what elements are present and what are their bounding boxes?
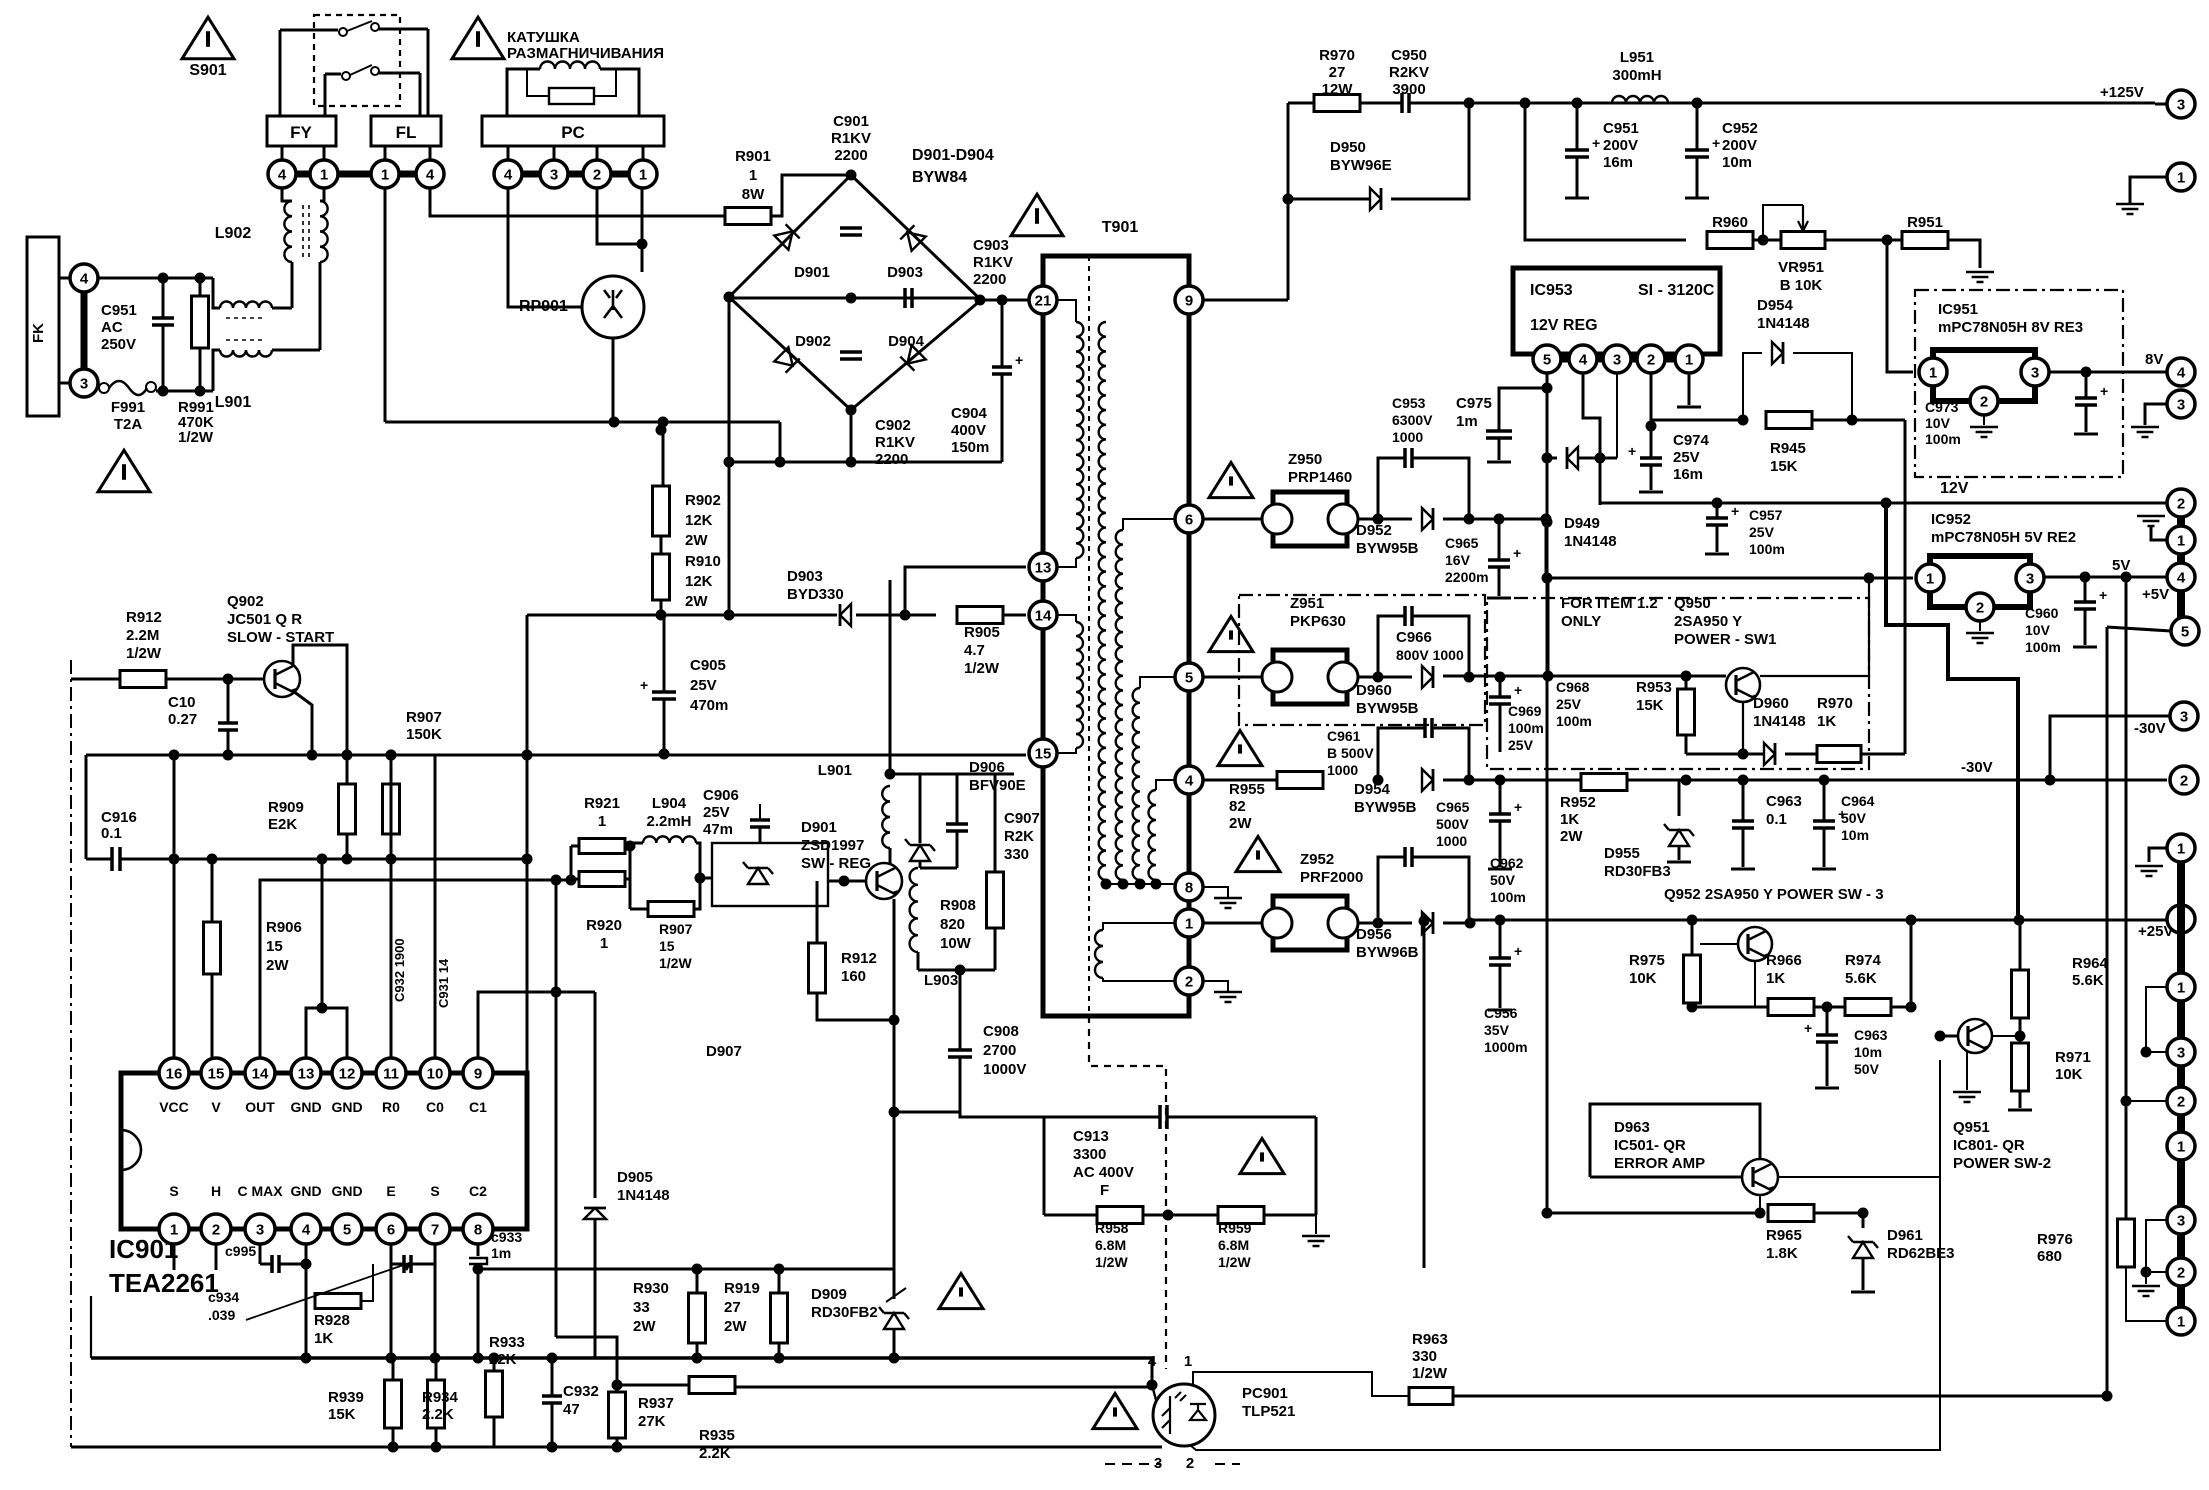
warning triangle bottom mid xyxy=(939,1273,983,1308)
pins under FL xyxy=(384,146,387,161)
svg-text:C963: C963 xyxy=(1766,793,1802,810)
wire RP901 bottom xyxy=(612,338,615,422)
svg-text:C906: C906 xyxy=(703,787,739,804)
svg-text:2.2K: 2.2K xyxy=(699,1445,731,1462)
warning triangle Z952 xyxy=(1236,836,1280,871)
transformer core dashed xyxy=(1088,256,1090,1016)
resistor R902 xyxy=(662,422,665,487)
svg-text:3: 3 xyxy=(80,375,88,392)
primary winding lower xyxy=(1056,615,1076,622)
svg-text:0.27: 0.27 xyxy=(168,711,197,728)
svg-text:4: 4 xyxy=(2177,364,2186,381)
svg-text:-30V: -30V xyxy=(1961,759,1993,776)
svg-text:1: 1 xyxy=(749,167,757,184)
svg-text:C1: C1 xyxy=(469,1099,487,1115)
svg-text:C964: C964 xyxy=(1841,793,1875,809)
wire R974 node up xyxy=(1910,920,1913,1007)
svg-text:Q902: Q902 xyxy=(227,593,264,610)
wire bridge out to T901 pin21 xyxy=(981,299,1029,302)
svg-text:3: 3 xyxy=(2177,1212,2185,1229)
svg-text:+: + xyxy=(2099,587,2107,603)
svg-text:2.2K: 2.2K xyxy=(422,1406,454,1423)
T901 pin 1 xyxy=(1175,909,1203,937)
svg-text:R937: R937 xyxy=(638,1395,674,1412)
resistor R910 xyxy=(660,536,663,555)
capacitor C961 loop xyxy=(1373,775,1384,786)
wire Q903 collector coil L901b xyxy=(882,786,890,848)
svg-text:+: + xyxy=(1015,352,1023,368)
connector pin 1 gnd 5V xyxy=(2167,526,2195,554)
svg-text:1N4148: 1N4148 xyxy=(1564,533,1617,550)
svg-text:ONLY: ONLY xyxy=(1561,613,1601,630)
IC951 pin2 ground xyxy=(1983,415,1985,425)
svg-text:Z951: Z951 xyxy=(1290,595,1324,612)
svg-text:R933: R933 xyxy=(489,1334,525,1351)
svg-text:1000V: 1000V xyxy=(983,1061,1026,1078)
svg-text:1/2W: 1/2W xyxy=(1218,1254,1251,1270)
svg-text:+125V: +125V xyxy=(2100,84,2144,101)
thick bus 12V group xyxy=(2177,503,2185,631)
svg-text:10: 10 xyxy=(427,1065,444,1082)
svg-text:C902: C902 xyxy=(875,417,911,434)
wire IC953 pin5 down xyxy=(1546,373,1549,676)
svg-text:27: 27 xyxy=(724,1299,741,1316)
transistor Q903 SW-REG xyxy=(866,863,902,899)
wire bridge bottom return xyxy=(850,410,853,462)
capacitor C965 xyxy=(1498,519,1501,560)
svg-text:1N4148: 1N4148 xyxy=(617,1187,670,1204)
svg-text:2: 2 xyxy=(2177,1093,2185,1110)
warning triangle above T901 xyxy=(1011,194,1063,236)
connector pin 2 (-30V) xyxy=(2170,766,2198,794)
diode D954b xyxy=(1422,769,1433,791)
svg-text:+: + xyxy=(1513,545,1521,561)
svg-text:200V: 200V xyxy=(1603,137,1638,154)
svg-text:Q951: Q951 xyxy=(1953,1119,1990,1136)
posistor Z951 xyxy=(1203,676,1262,679)
svg-text:1: 1 xyxy=(2177,532,2185,549)
svg-text:D949: D949 xyxy=(1564,515,1600,532)
wire left vertex column xyxy=(728,297,731,615)
svg-text:R905: R905 xyxy=(964,624,1000,641)
svg-text:B 500V: B 500V xyxy=(1327,745,1374,761)
svg-text:R974: R974 xyxy=(1845,952,1882,969)
svg-text:47: 47 xyxy=(563,1401,580,1418)
svg-text:33: 33 xyxy=(633,1299,650,1316)
warning triangle lower-left xyxy=(98,450,150,492)
svg-text:D906: D906 xyxy=(969,759,1005,776)
svg-text:2: 2 xyxy=(2177,1264,2185,1281)
trimmer arrow c934 xyxy=(246,1262,412,1320)
svg-text:1N4148: 1N4148 xyxy=(1757,315,1810,332)
line 1269 xyxy=(478,1268,894,1271)
capacitor C951b xyxy=(1576,103,1579,150)
svg-text:R953: R953 xyxy=(1636,679,1672,696)
svg-text:R912: R912 xyxy=(126,609,162,626)
svg-text:1000: 1000 xyxy=(1392,429,1423,445)
capacitor C963b xyxy=(1742,780,1745,821)
svg-text:+: + xyxy=(1804,1020,1812,1036)
svg-text:C MAX: C MAX xyxy=(237,1183,283,1199)
warning triangle c913 xyxy=(1240,1138,1284,1173)
svg-text:R952: R952 xyxy=(1560,794,1596,811)
svg-text:3: 3 xyxy=(2026,570,2034,587)
svg-text:FY: FY xyxy=(290,123,312,142)
svg-text:FOR ITEM 1.2: FOR ITEM 1.2 xyxy=(1561,595,1658,612)
svg-text:+: + xyxy=(1628,443,1636,459)
svg-text:D963: D963 xyxy=(1614,1119,1650,1136)
transistor Q902 xyxy=(264,661,300,697)
diode D903 xyxy=(900,225,925,250)
svg-text:GND: GND xyxy=(290,1183,321,1199)
wire error amp out xyxy=(1778,1060,1940,1177)
svg-text:D901-D904: D901-D904 xyxy=(912,147,994,164)
svg-text:R934: R934 xyxy=(422,1389,459,1406)
svg-text:C905: C905 xyxy=(690,657,726,674)
connector FK xyxy=(27,237,59,416)
resistor R991 xyxy=(199,278,202,296)
svg-text:1K: 1K xyxy=(1560,811,1579,828)
box sides xyxy=(1043,1117,1046,1215)
zener D961 xyxy=(1862,1213,1865,1228)
resistor R975 xyxy=(1691,920,1694,955)
svg-text:1K: 1K xyxy=(1766,970,1785,987)
svg-text:C953: C953 xyxy=(1392,395,1426,411)
resistor R945 xyxy=(1766,412,1812,429)
svg-text:2W: 2W xyxy=(1229,815,1252,832)
wire regulation line xyxy=(527,614,837,617)
wire VR951 to IC951 xyxy=(1887,240,1913,372)
svg-text:c933: c933 xyxy=(491,1229,522,1245)
svg-text:+: + xyxy=(1514,799,1522,815)
rail mid lower C916 xyxy=(85,755,88,859)
Q950 dash-dot box xyxy=(1487,598,1869,769)
svg-text:0.1: 0.1 xyxy=(101,825,122,842)
svg-text:15K: 15K xyxy=(1770,458,1798,475)
T901 pin 9 xyxy=(1175,286,1203,314)
resistor R952 xyxy=(1581,774,1627,791)
svg-text:D903: D903 xyxy=(887,264,923,281)
wire Q951 emitter gnd xyxy=(1966,1050,1968,1090)
svg-text:25V: 25V xyxy=(1508,737,1534,753)
T901 pin 6 xyxy=(1175,505,1203,533)
svg-text:4: 4 xyxy=(1579,351,1588,368)
resistor R974 xyxy=(1814,1006,1845,1009)
svg-text:C951: C951 xyxy=(1603,120,1639,137)
svg-text:100m: 100m xyxy=(2025,639,2061,655)
wire Q903 emitter down xyxy=(893,899,896,1269)
svg-text:BYW84: BYW84 xyxy=(912,169,967,186)
IC901 box xyxy=(121,1073,527,1229)
svg-text:2200: 2200 xyxy=(834,147,867,164)
svg-text:R901: R901 xyxy=(735,148,771,165)
svg-text:GND: GND xyxy=(331,1099,362,1115)
wire pin2 line R945 xyxy=(1651,419,1743,422)
wire FL pin1 down xyxy=(384,188,387,422)
IC952 pin 3 xyxy=(2016,564,2044,592)
svg-text:5: 5 xyxy=(2181,623,2189,640)
wire pins 1-2 stubs xyxy=(173,1243,176,1270)
svg-text:1: 1 xyxy=(2177,1313,2185,1330)
svg-text:3900: 3900 xyxy=(1392,81,1425,98)
svg-text:330: 330 xyxy=(1412,1348,1437,1365)
svg-text:C932: C932 xyxy=(563,1383,599,1400)
svg-text:C932 1900: C932 1900 xyxy=(392,938,407,1002)
svg-text:R912: R912 xyxy=(841,950,877,967)
wire branch6 to column xyxy=(1545,519,1548,578)
svg-text:+: + xyxy=(1514,943,1522,959)
svg-text:1: 1 xyxy=(1185,915,1193,932)
resistor R939 xyxy=(392,1358,395,1380)
svg-text:SW - REG: SW - REG xyxy=(801,855,871,872)
svg-text:2: 2 xyxy=(1647,351,1655,368)
wire Z952 out xyxy=(1358,922,1412,925)
svg-text:50V: 50V xyxy=(1841,810,1867,826)
capacitor C973 xyxy=(2085,372,2088,398)
svg-text:IC501- QR: IC501- QR xyxy=(1614,1137,1686,1154)
svg-text:2: 2 xyxy=(1185,973,1193,990)
svg-text:3: 3 xyxy=(2177,96,2185,113)
svg-text:2W: 2W xyxy=(685,593,708,610)
connector group bottom pins xyxy=(2167,973,2195,1001)
capacitor c933 pins6-7 xyxy=(390,1243,393,1264)
svg-text:L901: L901 xyxy=(215,394,252,411)
svg-text:C931 14: C931 14 xyxy=(436,958,451,1008)
svg-text:1: 1 xyxy=(2177,1138,2185,1155)
secondary winding 4 xyxy=(1149,790,1156,880)
svg-text:16V: 16V xyxy=(1445,552,1471,568)
svg-text:250V: 250V xyxy=(101,336,136,353)
svg-text:2: 2 xyxy=(1976,599,1984,616)
svg-text:25V: 25V xyxy=(1673,449,1700,466)
wire pin9 riser xyxy=(478,992,595,1058)
capacitor C960 xyxy=(2084,577,2087,602)
T901 pin 15 xyxy=(1029,739,1057,767)
wire emitter to R965 xyxy=(1759,1195,1761,1213)
svg-text:C968: C968 xyxy=(1556,679,1590,695)
resistor R936 xyxy=(689,1377,735,1394)
svg-text:D952: D952 xyxy=(1356,522,1392,539)
svg-text:2: 2 xyxy=(1980,393,1988,410)
wire Q951 base xyxy=(1940,1035,1958,1038)
svg-text:S901: S901 xyxy=(189,62,226,79)
svg-text:100m: 100m xyxy=(1925,431,1961,447)
resistor R976 xyxy=(2125,1101,2128,1219)
svg-text:C973: C973 xyxy=(1925,399,1959,415)
svg-text:R963: R963 xyxy=(1412,1331,1448,1348)
wire B+ sense xyxy=(1525,103,1686,240)
svg-text:22K: 22K xyxy=(489,1351,517,1368)
diode D954 xyxy=(1743,353,1762,420)
svg-text:100m: 100m xyxy=(1490,889,1526,905)
wire pin16 riser xyxy=(173,755,176,1058)
wire rail right end up xyxy=(1151,1358,1154,1385)
thick ground rail xyxy=(91,1356,1152,1360)
capacitor C951 xyxy=(162,278,165,318)
resistor R963 xyxy=(1409,1388,1453,1405)
svg-text:3: 3 xyxy=(2180,708,2188,725)
svg-text:C903: C903 xyxy=(973,237,1009,254)
svg-text:RD30FB2: RD30FB2 xyxy=(811,1304,878,1321)
wire mains top xyxy=(98,277,213,280)
svg-text:4: 4 xyxy=(278,166,287,183)
svg-text:C904: C904 xyxy=(951,405,988,422)
svg-text:15: 15 xyxy=(266,938,283,955)
svg-text:820: 820 xyxy=(940,916,965,933)
svg-text:VR951: VR951 xyxy=(1778,259,1824,276)
switch contact upper xyxy=(280,29,338,32)
tertiary winding pins1-2 xyxy=(1103,923,1176,930)
svg-text:1m: 1m xyxy=(1456,413,1478,430)
svg-text:1m: 1m xyxy=(491,1245,511,1261)
connector pin 1 gnd mid xyxy=(2149,848,2170,862)
svg-text:10m: 10m xyxy=(1722,154,1752,171)
resistor R912 xyxy=(120,671,166,688)
capacitor C932b xyxy=(551,1358,554,1396)
wire PC901 pin2 right xyxy=(1190,1177,1940,1450)
svg-text:400V: 400V xyxy=(951,422,986,439)
svg-text:9: 9 xyxy=(474,1065,482,1082)
svg-text:6: 6 xyxy=(1185,511,1193,528)
svg-text:47m: 47m xyxy=(703,821,733,838)
svg-text:mPC78N05H 5V RE2: mPC78N05H 5V RE2 xyxy=(1931,529,2076,546)
svg-text:R970: R970 xyxy=(1319,47,1355,64)
T901 pin 8 xyxy=(1175,873,1203,901)
wire IC953 pin1 ground xyxy=(1688,373,1691,405)
svg-text:D903: D903 xyxy=(787,568,823,585)
resistor R921 xyxy=(579,839,625,854)
svg-text:R939: R939 xyxy=(328,1389,364,1406)
IC901 bottom pins xyxy=(159,1214,189,1244)
wire 578 line xyxy=(1548,577,1913,580)
svg-text:FL: FL xyxy=(396,123,417,142)
Z951 dash-dot box xyxy=(1239,595,1485,725)
connector pin 2 (12V) xyxy=(2167,489,2195,517)
svg-text:D961: D961 xyxy=(1887,1227,1923,1244)
transformer T901 frame xyxy=(1043,256,1189,1016)
svg-text:100m: 100m xyxy=(1508,720,1544,736)
svg-text:14: 14 xyxy=(252,1065,269,1082)
svg-text:AC 400V: AC 400V xyxy=(1073,1164,1134,1181)
svg-text:BYW95B: BYW95B xyxy=(1354,799,1417,816)
svg-text:POWER - SW1: POWER - SW1 xyxy=(1674,631,1777,648)
capacitor c932 pin8 xyxy=(477,1243,480,1256)
svg-text:R906: R906 xyxy=(266,919,302,936)
svg-text:2SA950 Y: 2SA950 Y xyxy=(1674,613,1742,630)
svg-text:82: 82 xyxy=(1229,798,1246,815)
secondary winding 1 xyxy=(1099,322,1106,880)
svg-text:R2K: R2K xyxy=(1004,828,1034,845)
svg-text:BYW95B: BYW95B xyxy=(1356,700,1419,717)
svg-text:R1KV: R1KV xyxy=(831,130,871,147)
svg-text:SLOW - START: SLOW - START xyxy=(227,629,334,646)
wire Q952 collector xyxy=(1754,961,1756,1007)
svg-text:R935: R935 xyxy=(699,1427,735,1444)
svg-text:1: 1 xyxy=(1685,351,1693,368)
svg-text:50V: 50V xyxy=(1490,872,1516,888)
capacitor C966 loop xyxy=(1378,616,1405,677)
svg-text:ERROR AMP: ERROR AMP xyxy=(1614,1155,1705,1172)
svg-text:14: 14 xyxy=(1035,607,1052,624)
T901 pin 4 xyxy=(1175,766,1203,794)
svg-text:R930: R930 xyxy=(633,1280,669,1297)
svg-text:2W: 2W xyxy=(1560,828,1583,845)
resistor R901 xyxy=(725,208,771,225)
svg-text:IC952: IC952 xyxy=(1931,511,1971,528)
svg-text:R0: R0 xyxy=(382,1099,400,1115)
resistor R960 xyxy=(1707,232,1753,249)
svg-text:F: F xyxy=(1100,1182,1109,1199)
thick bus right edge xyxy=(2177,862,2185,1321)
svg-text:1: 1 xyxy=(639,166,647,183)
svg-text:C957: C957 xyxy=(1749,507,1783,523)
capacitor C10 xyxy=(227,679,230,723)
B+ rail 125V xyxy=(1469,102,2155,105)
svg-text:OUT: OUT xyxy=(245,1099,275,1115)
T901 pin 5 xyxy=(1175,663,1203,691)
svg-text:R902: R902 xyxy=(685,492,721,509)
svg-text:6.8M: 6.8M xyxy=(1095,1237,1126,1253)
posistor RP901 xyxy=(582,276,644,338)
snubber box D901 SW-REG xyxy=(712,843,828,906)
wire pin7 down xyxy=(434,1264,437,1358)
IC951 pin 1 xyxy=(1919,358,1947,386)
diode D960b 1N4148 xyxy=(1686,753,1764,756)
svg-text:D909: D909 xyxy=(811,1286,847,1303)
dashed feedback to PC901 xyxy=(1089,1016,1166,1369)
transistor Q963 error amp xyxy=(1742,1159,1778,1195)
svg-text:12: 12 xyxy=(339,1065,356,1082)
svg-text:c995: c995 xyxy=(225,1243,256,1259)
svg-text:D954: D954 xyxy=(1354,781,1391,798)
svg-text:16: 16 xyxy=(166,1065,183,1082)
svg-text:C974: C974 xyxy=(1673,432,1710,449)
svg-text:PRP1460: PRP1460 xyxy=(1288,469,1352,486)
wire Z950 out xyxy=(1358,518,1412,521)
svg-text:C965: C965 xyxy=(1445,535,1479,551)
svg-text:1: 1 xyxy=(1184,1353,1192,1370)
svg-text:R1KV: R1KV xyxy=(973,254,1013,271)
svg-text:RD62BE3: RD62BE3 xyxy=(1887,1245,1955,1262)
svg-text:150K: 150K xyxy=(406,726,442,743)
svg-text:25V: 25V xyxy=(690,677,717,694)
svg-text:1: 1 xyxy=(600,935,608,952)
svg-text:C0: C0 xyxy=(426,1099,444,1115)
svg-text:300mH: 300mH xyxy=(1612,67,1661,84)
network joins xyxy=(570,846,573,879)
capacitor C962 xyxy=(1495,775,1506,786)
svg-text:TLP521: TLP521 xyxy=(1242,1403,1295,1420)
inductor L904 xyxy=(643,836,696,843)
diode D952 xyxy=(1422,508,1433,530)
svg-text:L901: L901 xyxy=(818,762,852,779)
svg-text:T901: T901 xyxy=(1102,219,1139,236)
svg-text:IC953: IC953 xyxy=(1530,282,1573,299)
svg-text:1000: 1000 xyxy=(1327,762,1358,778)
primary winding upper xyxy=(1056,300,1076,322)
svg-text:R964: R964 xyxy=(2072,955,2109,972)
inductor L951 xyxy=(1612,96,1668,103)
optocoupler PC901 xyxy=(1153,1384,1215,1446)
IC951 pin 2 xyxy=(1970,387,1998,415)
svg-text:50V: 50V xyxy=(1854,1061,1880,1077)
resistor R965 xyxy=(1768,1205,1814,1222)
svg-text:330: 330 xyxy=(1004,846,1029,863)
svg-text:L904: L904 xyxy=(652,795,687,812)
IC952 output 5V xyxy=(2044,576,2167,579)
svg-text:6300V: 6300V xyxy=(1392,412,1433,428)
svg-text:4: 4 xyxy=(1185,772,1194,789)
